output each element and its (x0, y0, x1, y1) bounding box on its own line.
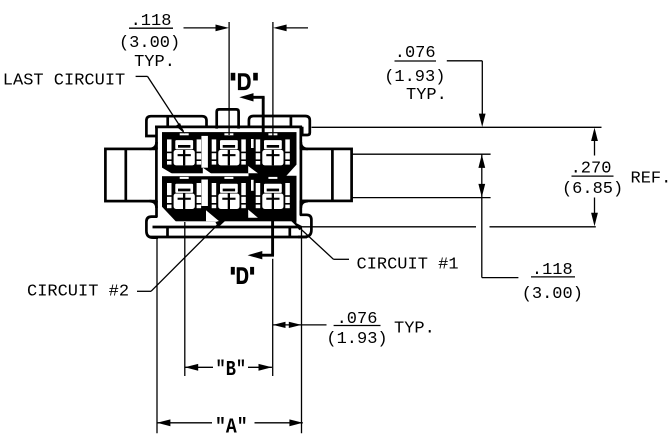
svg-text:"B": "B" (216, 358, 247, 382)
svg-text:(3.00): (3.00) (522, 285, 583, 304)
svg-text:.270: .270 (571, 160, 612, 179)
svg-text:CIRCUIT #2: CIRCUIT #2 (27, 283, 129, 302)
svg-text:"A": "A" (215, 416, 248, 439)
svg-text:(6.85): (6.85) (562, 180, 623, 199)
svg-text:.118: .118 (131, 12, 172, 31)
svg-text:(1.93): (1.93) (384, 68, 445, 87)
svg-text:CIRCUIT #1: CIRCUIT #1 (357, 255, 459, 274)
svg-text:LAST CIRCUIT: LAST CIRCUIT (3, 72, 125, 91)
svg-text:TYP.: TYP. (134, 53, 175, 72)
svg-text:(3.00): (3.00) (119, 34, 180, 53)
svg-text:.076: .076 (337, 310, 378, 329)
svg-text:.118: .118 (532, 261, 573, 280)
svg-text:TYP.: TYP. (394, 320, 435, 339)
svg-text:REF.: REF. (631, 170, 671, 189)
svg-text:.076: .076 (395, 44, 436, 63)
svg-text:(1.93): (1.93) (326, 330, 387, 349)
svg-text:TYP.: TYP. (406, 86, 447, 105)
